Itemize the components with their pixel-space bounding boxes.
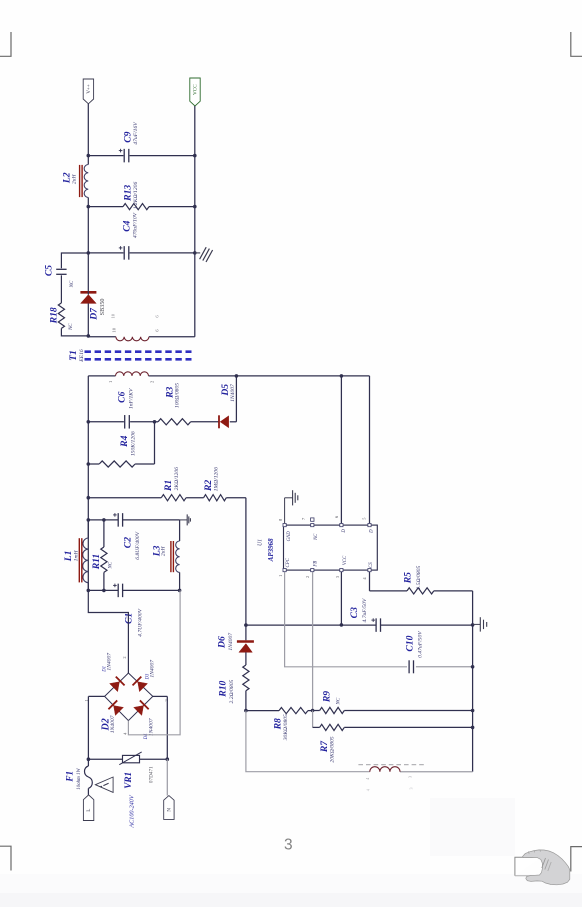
wire drain pin5 [369,376,371,523]
svg-text:D6: D6 [216,636,227,649]
svg-text:1MΩ/1206: 1MΩ/1206 [213,467,219,491]
capacitor C9 [123,149,125,163]
svg-text:F1: F1 [64,771,74,783]
resistor R18 [58,303,64,329]
bridge diamond [105,673,153,721]
diode D7 SB350 [80,291,96,294]
wire clamp net [88,421,124,423]
svg-text:R2: R2 [203,480,214,492]
node VR1 right [166,757,170,761]
wire VCC C3 net [246,624,342,626]
wire bridge AC left [88,695,104,697]
svg-text:R13: R13 [122,185,133,202]
svg-text:2KΩ/1206: 2KΩ/1206 [174,467,180,491]
resistor R5 [407,588,434,594]
svg-text:T1: T1 [68,350,79,361]
svg-text:EE16: EE16 [79,349,85,363]
svg-text:10: 10 [111,313,116,318]
node C1/R11 bottom [102,589,106,593]
diode D4 [133,700,148,715]
svg-text:C9: C9 [123,131,134,142]
svg-text:1N4007: 1N4007 [107,653,113,671]
resistor R11 [103,520,105,547]
node D6 top [244,623,248,627]
U1 pin 7 NC [311,524,314,527]
svg-text:6.8UF/400V: 6.8UF/400V [135,531,141,559]
svg-text:NC: NC [337,697,342,705]
wire CPC C10 net [285,572,407,667]
svg-text:FB: FB [313,561,318,568]
transformer T1 secondary winding [116,337,149,341]
svg-text:2uH: 2uH [71,174,77,185]
capacitor C10 [408,660,410,673]
resistor R1 [161,495,186,501]
svg-text:L: L [86,809,92,812]
capacitor C3 [375,618,377,632]
node VR1 left [87,757,91,761]
svg-text:R5: R5 [402,572,413,584]
svg-text:C2: C2 [122,537,133,548]
wire primary left rail [87,376,89,591]
logo square [515,857,542,876]
wire C5 R18 branch [61,253,88,268]
svg-text:2: 2 [122,656,127,658]
svg-text:1.2KΩ/1206: 1.2KΩ/1206 [133,182,139,210]
wire N input [166,759,168,795]
svg-text:R4: R4 [119,435,130,447]
svg-text:D: D [342,529,347,534]
capacitor C5 [56,268,66,270]
warning triangle [95,777,113,792]
transformer T1 primary winding [116,372,149,376]
diode D6 [245,625,247,640]
svg-text:3: 3 [408,776,413,778]
wire D5 anode to primary [235,376,237,422]
svg-text:1mH: 1mH [74,550,80,562]
svg-text:NC: NC [69,323,74,331]
wire drain pin6 [340,376,342,523]
ground primary right [473,623,481,625]
svg-text:AC100-240V: AC100-240V [129,794,136,829]
wire pin3 to C3 net [340,572,342,625]
node R4 left [87,462,91,466]
svg-text:R7: R7 [319,740,330,753]
resistor R9 [313,710,320,712]
corner mark bottom left [0,846,11,870]
svg-text:1: 1 [278,575,283,577]
svg-text:C10: C10 [405,635,416,651]
svg-text:30KΩ/0805: 30KΩ/0805 [283,714,289,741]
node FB junction [311,709,315,713]
wire T1 primary net [88,375,115,377]
svg-text:L1: L1 [63,551,74,563]
corner mark top left [0,32,11,56]
resistor R13 [123,204,149,210]
wire V++ rail mid [87,198,89,292]
node C3 right ground [471,623,475,627]
terminal L [83,795,93,821]
U1 pin 5 D [368,524,371,527]
terminal V++ [83,79,93,104]
svg-text:3: 3 [284,837,293,854]
svg-text:1N4007: 1N4007 [228,633,234,651]
wire C9 net [88,155,123,157]
svg-text:470uF/10V: 470uF/10V [132,212,138,238]
svg-text:C1: C1 [124,613,135,624]
wire aux winding net [246,711,370,772]
transformer T1 aux winding [370,767,400,772]
svg-text:07D471: 07D471 [148,766,154,783]
svg-text:2uH: 2uH [161,546,167,557]
wire FB column [312,572,314,711]
node C2 left rail [87,518,91,522]
ground EMI filter [180,519,188,521]
svg-text:1.5Ω/0805: 1.5Ω/0805 [416,566,422,590]
resistor R2 [204,495,227,501]
capacitor C1 [117,584,119,598]
U1 pin 1 CPC [283,569,286,572]
wire T1 secondary net [88,336,116,338]
inductor L2 [84,165,88,198]
resistor R8 [246,710,279,712]
node C4 left [87,251,91,255]
diode D5 [219,415,229,428]
svg-text:100Ω/0805: 100Ω/0805 [174,383,180,408]
wire C1 net [88,589,118,591]
svg-text:4.7uF/50V: 4.7uF/50V [362,598,368,622]
node C6/R4 junction [153,420,157,424]
svg-text:AP3968: AP3968 [267,538,275,562]
svg-text:D: D [369,529,374,534]
svg-text:2: 2 [305,576,310,578]
svg-text:3: 3 [408,787,413,789]
node R13 right [193,205,197,209]
svg-text:1N4007: 1N4007 [149,718,155,736]
terminal N [164,796,174,820]
svg-text:47uF/16V: 47uF/16V [133,122,139,145]
node D5 primary junction [235,374,239,378]
node clamp left [87,420,91,424]
wire VCC rail [194,106,196,337]
svg-text:D7: D7 [89,307,100,321]
svg-text:NC: NC [109,561,114,569]
svg-text:CS: CS [369,562,374,568]
resistor R10 [243,665,249,691]
varistor VR1 [123,755,140,762]
node D7 anode junction [87,334,91,338]
svg-text:NC: NC [70,280,75,288]
logo hand [523,850,570,885]
node pin3 VCC junction [340,623,344,627]
wire R1 R2 net [88,497,161,499]
U1 pin 8 GND [283,524,286,527]
node drain junction [340,374,344,378]
capacitor C2 [117,513,119,527]
diode D2 [108,700,123,715]
capacitor C6 [124,415,126,429]
wire VR1 net [88,758,122,760]
wire CS net [369,572,371,591]
svg-text:V++: V++ [86,84,92,94]
node C1 right L3 [178,589,182,593]
svg-text:0.47uF/50V: 0.47uF/50V [417,631,423,658]
node R10 bottom aux [244,709,248,713]
svg-text:C4: C4 [121,220,132,231]
node C2/R11 junction [102,518,106,522]
fuse F1 [87,759,89,766]
svg-text:1nF/1KV: 1nF/1KV [129,388,135,409]
resistor R7 [312,711,314,728]
wire R4 branch [88,463,99,465]
svg-text:10: 10 [111,327,116,332]
svg-text:4.7UF/400V: 4.7UF/400V [137,608,143,636]
svg-text:R18: R18 [48,307,59,324]
U1 pin 4 CS [368,569,371,572]
U1 pin 6 D [340,524,343,527]
U1 pin 2 FB [311,569,314,572]
node R7 right [471,726,475,730]
node R1 left [87,496,91,500]
capacitor C4 [123,246,125,260]
terminal VCC [190,78,200,106]
svg-text:NC: NC [314,533,319,541]
corner mark top right [571,32,582,56]
svg-text:150K/1206: 150K/1206 [130,431,136,456]
inductor L1 [87,520,89,538]
transformer T1 aux core [358,764,425,766]
node R9 right [471,709,475,713]
svg-text:1N4007: 1N4007 [110,715,116,733]
wire C2 net [88,519,118,521]
svg-text:2.2Ω/0805: 2.2Ω/0805 [229,680,235,704]
svg-text:VCC: VCC [343,555,348,565]
svg-text:GND: GND [287,531,292,542]
inductor L3 [179,520,181,541]
svg-text:20KΩ/0805: 20KΩ/0805 [329,736,335,762]
svg-text:10ohm 1W: 10ohm 1W [77,768,82,790]
wire bridge DC minus [128,590,180,734]
node C4 right [193,251,197,255]
ground secondary [195,252,200,254]
svg-text:C3: C3 [349,607,360,618]
diode D3 [133,677,148,692]
node C1 left [87,589,91,593]
corner mark bottom right [571,847,582,872]
diode D1 [109,677,124,692]
transformer T1 core [85,350,192,353]
resistor R3 [158,419,191,425]
node V++/C9 junction [87,154,91,158]
node VCC/C9 junction [193,154,197,158]
wire right rail primary ground [472,591,474,772]
ground U1 pin8 [284,498,286,523]
svg-text:C5: C5 [44,265,55,276]
svg-text:R9: R9 [322,691,333,703]
svg-text:N: N [166,808,172,812]
U1 pin 3 VCC [340,569,343,572]
node R13 left [87,205,91,209]
svg-text:SB350: SB350 [99,298,106,315]
node C10 right [471,665,475,669]
resistor R4 [99,461,135,467]
wire C4 net [88,252,123,254]
svg-text:R10: R10 [217,681,228,698]
svg-text:C6: C6 [117,391,128,402]
svg-text:U1: U1 [257,539,263,546]
wire bridge AC right [153,695,168,697]
svg-text:1N4007: 1N4007 [149,660,155,678]
op-amp U1 AP3968 body [284,525,378,570]
svg-text:VR1: VR1 [123,772,133,789]
svg-text:CPC: CPC [286,557,291,567]
wire V++ rail upper [87,104,89,165]
wire R2 to feedback rail [245,498,247,625]
svg-text:VCC: VCC [192,84,198,95]
svg-text:R11: R11 [91,554,102,570]
wire R13 net [88,206,123,208]
svg-text:1N4007: 1N4007 [230,384,236,402]
svg-text:R1: R1 [163,480,174,492]
wire rail to bridge [88,590,128,673]
